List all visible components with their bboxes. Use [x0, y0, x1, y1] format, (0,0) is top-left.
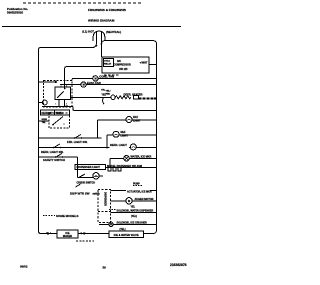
wire: L1 hot from plug to left rail — [39, 41, 97, 50]
svg-text:ICE & WATER VALVE: ICE & WATER VALVE — [114, 234, 139, 237]
wire: neutral branch to right rail — [102, 41, 154, 44]
svg-text:DISPENSER: DISPENSER — [104, 192, 107, 206]
svg-text:RELAY: RELAY — [104, 63, 112, 66]
defrost timer motor — [42, 100, 47, 105]
crusher switch blade — [76, 184, 81, 187]
ice maker box — [57, 230, 78, 238]
svg-text:M: M — [83, 83, 85, 87]
svg-text:EVAP. FAN: EVAP. FAN — [87, 81, 101, 85]
auger motor M3 — [126, 198, 132, 204]
svg-text:SOLENOID, ICE CRUSHER: SOLENOID, ICE CRUSHER — [117, 221, 148, 224]
wire: evaporator fan rung — [60, 84, 81, 86]
svg-text:3: 3 — [66, 104, 68, 106]
wire: riser to freezer light — [96, 120, 98, 138]
wire: refr light switch rung — [39, 147, 110, 149]
svg-text:M: M — [128, 199, 131, 203]
svg-text:SOME MODELS: SOME MODELS — [56, 214, 79, 218]
wire: safety switch rung — [39, 156, 78, 158]
junction on neutral wire — [101, 43, 103, 45]
refr light switch — [54, 144, 60, 148]
valve leader dashes — [109, 209, 116, 211]
svg-text:(YEL): (YEL) — [120, 229, 126, 231]
wire: riser refrigerator light to switch rung — [106, 135, 108, 148]
svg-text:WIRING DIAGRAM: WIRING DIAGRAM — [88, 19, 115, 23]
wire: thermostat GRN/YEL lead to rail — [39, 120, 49, 122]
svg-text:GRN/: GRN/ — [42, 119, 48, 121]
svg-text:SOLENOID, WATER DISPENSER: SOLENOID, WATER DISPENSER — [117, 209, 154, 212]
svg-text:DISP WTR SW: DISP WTR SW — [70, 191, 90, 195]
svg-text:09/02: 09/02 — [20, 265, 28, 269]
svg-text:CRSHR SWITCH: CRSHR SWITCH — [77, 182, 96, 185]
wire: neutral drop to compressor — [101, 41, 103, 57]
svg-text:switch: switch — [93, 192, 101, 195]
wire: dispenser switch rung to rail — [106, 167, 156, 169]
pump leader dashes — [133, 185, 143, 187]
wire: drain loop hook — [103, 98, 105, 105]
svg-text:LIGHT: LIGHT — [121, 134, 129, 137]
svg-text:DEFROST: DEFROST — [42, 113, 54, 115]
evaporator fan motor M2 — [81, 82, 86, 87]
wire: rail feed into timer with arrow — [39, 81, 57, 83]
page top dashed trim line — [23, 2, 143, 4]
svg-text:ACTUATOR, ICE MKR: ACTUATOR, ICE MKR — [127, 190, 152, 193]
junction on hot wire — [96, 45, 98, 47]
svg-text:RED: RED — [106, 93, 111, 95]
dispenser light switch — [78, 177, 93, 179]
svg-text:YEL: YEL — [101, 90, 106, 92]
wire: heavy WHT lead to right rail — [139, 97, 157, 99]
freezer light switch — [75, 134, 81, 138]
ice and water valve box — [109, 231, 144, 238]
svg-text:LIGHT: LIGHT — [133, 119, 141, 122]
defrost timer dashed enclosure — [44, 81, 73, 108]
wire: drop into dispenser assembly — [77, 157, 79, 178]
dashed mark under ice maker — [76, 240, 94, 242]
wire: ice maker actuator rung — [111, 189, 126, 191]
wire: compressor WHT lead to right rail — [149, 64, 156, 66]
defrost thermostat switch — [53, 117, 63, 125]
svg-text:YEL/: YEL/ — [106, 91, 111, 93]
svg-text:◄WHT: ◄WHT — [139, 61, 148, 65]
wire: freezer light rung — [97, 119, 126, 121]
svg-text:WATER, ICE MKR: WATER, ICE MKR — [131, 155, 152, 158]
dispenser light label box — [75, 165, 106, 170]
wire: refrigerator light rung — [107, 134, 113, 136]
freezer light bulb — [126, 117, 132, 123]
wire: bulb to dispenser box — [99, 175, 103, 177]
svg-text:(YEL): (YEL) — [131, 216, 137, 218]
defrost timer label box — [41, 110, 70, 115]
wire: defrost return with arrow — [42, 105, 73, 107]
wire: timer contact 4 to compressor — [65, 67, 102, 81]
svg-text:216362878: 216362878 — [170, 263, 187, 267]
wire: refr light to right rail — [129, 147, 130, 149]
defrost thermostat dashed box — [49, 113, 70, 128]
svg-text:59: 59 — [103, 266, 107, 270]
refrigerator light bulb — [113, 131, 119, 137]
wire: left supply rail (L1 HOT bus) — [39, 49, 41, 233]
wire: auger motor rung — [111, 200, 126, 202]
wire: defrost return rung to right rail — [73, 106, 157, 110]
heater terminal — [111, 95, 115, 99]
svg-text:FZR. LIGHT SW.: FZR. LIGHT SW. — [67, 140, 88, 144]
timer switch contacts and blade — [64, 88, 66, 90]
svg-text:AUGER MOTOR: AUGER MOTOR — [135, 198, 154, 201]
wire: defrost heater rung — [71, 96, 111, 98]
svg-text:MAKER: MAKER — [63, 235, 72, 238]
water valve solenoid symbol — [124, 156, 130, 162]
svg-text:SAFETY SWITCH: SAFETY SWITCH — [43, 158, 65, 162]
svg-text:OVLD: OVLD — [104, 61, 110, 63]
connector pins — [108, 168, 111, 172]
svg-text:1: 1 — [55, 104, 57, 106]
svg-text:5995253520: 5995253520 — [7, 11, 23, 15]
svg-text:DEFR. HEATER: DEFR. HEATER — [124, 92, 143, 96]
wire: water dispenser solenoid rung — [111, 212, 157, 214]
svg-text:V/R 115: V/R 115 — [119, 68, 128, 71]
safety switch — [56, 153, 62, 157]
svg-text:YEL: YEL — [42, 122, 47, 124]
condenser fan motor M1 — [93, 76, 98, 81]
svg-text:(NEUTRAL): (NEUTRAL) — [106, 30, 121, 34]
svg-text:PUMP: PUMP — [133, 183, 140, 185]
svg-text:DISPENSER LIGHT: DISPENSER LIGHT — [77, 165, 101, 169]
compressor enclosure box — [102, 57, 149, 73]
svg-text:MODEL DISPENSER SW ASM: MODEL DISPENSER SW ASM — [107, 165, 142, 168]
svg-text:REFR. LIGHT SW.: REFR. LIGHT SW. — [41, 150, 64, 154]
some models leader dashes — [43, 215, 55, 217]
svg-text:TIMER: TIMER — [56, 113, 63, 115]
svg-text:(L1) HOT: (L1) HOT — [82, 30, 94, 34]
wire: freezer light switch rung — [39, 137, 102, 139]
wire: bottom ice maker line — [40, 232, 153, 234]
wire: condenser fan rung — [72, 78, 93, 80]
svg-text:M: M — [95, 76, 97, 80]
second refr light bulb — [130, 144, 136, 150]
svg-text:COND. FAN: COND. FAN — [99, 75, 114, 79]
ice crusher solenoid symbol — [109, 222, 113, 226]
defrost timer cam switch box — [55, 87, 71, 100]
wire: right return rail (NEUTRAL bus) — [153, 41, 156, 234]
defrost heater resistor element — [115, 96, 131, 99]
header separator rule — [2, 26, 181, 28]
heater limit box — [134, 95, 139, 99]
dispenser assembly dashed box — [98, 189, 111, 222]
connector arrows and junctions on ice maker line — [45, 232, 49, 235]
svg-text:REFR. LIGHT: REFR. LIGHT — [110, 143, 127, 147]
overload relay box — [104, 59, 114, 67]
svg-text:YEL: YEL — [131, 206, 136, 208]
svg-text:FRS26WNS & FRS26WNB: FRS26WNS & FRS26WNB — [88, 8, 127, 12]
svg-text:COMPRESSOR: COMPRESSOR — [114, 64, 132, 67]
dashed divider under compressor — [104, 74, 119, 76]
junction on refr light switch rung — [106, 147, 108, 149]
wire: ice crusher solenoid rung — [99, 223, 109, 225]
wire: water valve rung — [110, 157, 124, 159]
dispenser light bulb — [93, 173, 99, 179]
power plug P1 (115V supply) — [93, 31, 105, 41]
